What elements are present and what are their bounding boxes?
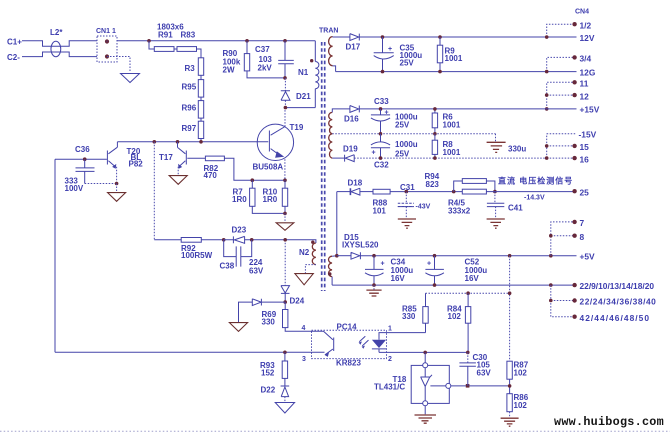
svg-text:4: 4 [302, 325, 306, 332]
terminal 22/9/10/13/14/18/20 [572, 283, 576, 287]
node junction +15V stub [545, 107, 549, 111]
diode D21 [281, 91, 290, 100]
node junction C36 top [83, 157, 87, 161]
svg-text:2kV: 2kV [258, 64, 273, 73]
svg-text:25V: 25V [395, 121, 410, 130]
wire W4 top tap [332, 255, 337, 258]
wire -15V line [354, 157, 547, 159]
svg-text:16: 16 [580, 155, 590, 165]
svg-text:直流 电压检测信号: 直流 电压检测信号 [498, 176, 573, 186]
wire W2 top tap [332, 109, 350, 113]
node junction C34 top [372, 254, 376, 258]
terminal 42/44/46/48/50 [572, 315, 576, 319]
resistor R94 parallel branch [454, 181, 495, 192]
wire +5V line left [337, 255, 351, 257]
diode D15 [351, 252, 360, 259]
wire W2 center tap common line [332, 133, 495, 135]
diode clamp at R69 [252, 299, 261, 306]
node junction C35 top [381, 35, 385, 39]
terminal 7 [572, 220, 576, 224]
resistor R90 [244, 54, 249, 71]
svg-text:-14.3V: -14.3V [524, 195, 545, 202]
diode D19 [345, 155, 355, 162]
svg-text:330u: 330u [508, 145, 526, 154]
node junction +5V 7/8 column [549, 254, 553, 258]
wire R10 column [284, 180, 286, 188]
transformer core [322, 42, 325, 291]
optocoupler LED [372, 333, 387, 353]
svg-text:1: 1 [388, 326, 392, 333]
wire pin1 to R85 [387, 332, 426, 334]
svg-text:102: 102 [514, 401, 528, 410]
node junction C34 bottom [372, 283, 376, 287]
transformer secondary W1 winding [329, 37, 333, 66]
wire collector node to N1 bottom [285, 107, 315, 109]
regulator TL431 anode circle [423, 401, 428, 406]
svg-text:C2-: C2- [7, 53, 20, 62]
svg-text:KR823: KR823 [336, 359, 361, 368]
svg-text:C38: C38 [220, 262, 235, 271]
svg-text:7: 7 [580, 218, 585, 228]
node junction D23 left [222, 238, 226, 242]
svg-text:1R0: 1R0 [263, 195, 278, 204]
svg-text:+: + [372, 150, 376, 157]
node junction 12G stub [545, 70, 549, 74]
resistor R86 [507, 394, 512, 412]
capacitor C30 [467, 352, 469, 362]
resistor R87 [507, 361, 512, 379]
regulator TL431 ref circle [446, 383, 451, 388]
wire T19 emitter down [284, 159, 286, 180]
node junction +5V divider tap [508, 254, 512, 258]
svg-text:63V: 63V [249, 267, 264, 276]
resistor R91 [154, 47, 174, 52]
resistor R9 [439, 37, 441, 72]
diode D16 [350, 106, 359, 113]
svg-text:16V: 16V [391, 274, 406, 283]
node junction base line T17 [176, 140, 180, 144]
svg-text:22/9/10/13/14/18/20: 22/9/10/13/14/18/20 [580, 281, 655, 291]
wire D24 to node [284, 293, 286, 302]
wire T17 collector [177, 142, 179, 148]
terminal 11 [572, 80, 576, 84]
wire R69 to pin4 [285, 328, 311, 332]
diode D18 [350, 188, 360, 195]
wire -15V dashed stub [547, 133, 576, 135]
svg-text:100V: 100V [65, 184, 84, 193]
wire R90 bottom to snubber node [247, 71, 285, 78]
wire stub terminal 16 [547, 157, 575, 159]
node junction R94 right [493, 190, 497, 194]
svg-text:152: 152 [261, 369, 275, 378]
svg-text:25: 25 [580, 188, 590, 198]
wire stub terminals 11 12 [547, 82, 575, 109]
svg-text:8: 8 [580, 232, 585, 242]
wire T17 emitter to ground [177, 167, 179, 176]
wire R92 line left [154, 239, 181, 241]
svg-text:25V: 25V [400, 59, 415, 68]
wire N1 bottom riser [314, 89, 316, 108]
terminal 16 [572, 156, 576, 160]
svg-text:L2*: L2* [50, 28, 63, 37]
svg-text:C1+: C1+ [7, 38, 22, 47]
svg-text:12V: 12V [580, 33, 595, 43]
wire 12V line [359, 36, 576, 38]
ground earth common [487, 142, 506, 152]
resistor R96 [198, 101, 203, 119]
wire R97 to base line [200, 139, 202, 142]
wire TL431 cathode [424, 352, 426, 362]
svg-text:T19: T19 [290, 123, 304, 132]
wire R92 column [153, 142, 155, 240]
wire C1+ to CN1 [22, 41, 97, 47]
svg-text:+: + [381, 261, 385, 268]
wire R7 R10 bottoms tie [252, 206, 285, 213]
node junction 22/24 stub [549, 299, 553, 303]
svg-text:+: + [388, 46, 392, 53]
svg-text:100R5W: 100R5W [181, 251, 213, 260]
wire W2 bottom tap [332, 157, 344, 159]
node junction R94 left [452, 190, 456, 194]
svg-text:22/24/34/36/38/40: 22/24/34/36/38/40 [580, 297, 657, 307]
ground earth TL431 [415, 415, 437, 423]
svg-text:IXYSL520: IXYSL520 [342, 241, 379, 250]
node junction T20 emitter [115, 182, 119, 186]
capacitor C36 [76, 159, 95, 183]
resistor R7 [250, 188, 255, 206]
svg-text:D22: D22 [261, 386, 276, 395]
inductor L2 common mode choke [51, 46, 60, 52]
svg-text:63V: 63V [477, 369, 492, 378]
connector CN1 box [97, 36, 117, 62]
node junction base line R97 [199, 140, 203, 144]
wire C2- to CN1 [22, 52, 97, 57]
resistor R8 [434, 134, 436, 158]
node junction snubber [283, 76, 287, 80]
svg-text:D19: D19 [343, 145, 358, 154]
terminal 15 [572, 144, 576, 148]
node junction N2 line [283, 238, 287, 242]
capacitor C37 [278, 41, 294, 78]
resistor R88 [373, 189, 390, 194]
transistor T19 BU508A [257, 124, 293, 160]
wire stub terminal 3/4 [547, 57, 575, 71]
transformer secondary W4 winding [329, 256, 333, 276]
wire CN1 to ground [107, 57, 130, 73]
transformer primary N1 phase dot [310, 59, 313, 62]
svg-text:1R0: 1R0 [232, 195, 247, 204]
transformer primary N1 winding [315, 41, 319, 89]
node junction rail R90 [245, 39, 249, 43]
regulator TL431 internal zener [420, 368, 445, 401]
node junction R84 top [466, 291, 470, 295]
wire D22 to ground [284, 397, 286, 403]
node junction R9 top [438, 35, 442, 39]
wire R93 to D22 [284, 378, 286, 386]
svg-text:333x2: 333x2 [448, 207, 471, 216]
resistor R97 [198, 121, 203, 138]
svg-text:D16: D16 [344, 115, 359, 124]
transistor T17 [185, 151, 187, 165]
optocoupler light arrows [359, 336, 368, 346]
svg-text:C36: C36 [75, 145, 90, 154]
ground at T17 [169, 176, 187, 185]
ground earth C41 [487, 219, 505, 228]
node junction C33 top [379, 107, 383, 111]
transformer N2 winding [312, 243, 316, 265]
svg-text:12: 12 [580, 92, 590, 102]
svg-text:1001: 1001 [443, 121, 461, 130]
wire clamp diode line [262, 301, 285, 303]
wire T20 collector [116, 142, 118, 147]
wire R82 to emitter resistors [224, 158, 285, 180]
node junction collector line [284, 106, 288, 110]
wire return rail [332, 284, 574, 286]
node junction C31 [405, 190, 409, 194]
diode D17 [350, 34, 359, 41]
node junction rail-R91 [147, 39, 151, 43]
wire R86 to ground [509, 412, 511, 418]
resistor R3 [198, 58, 203, 76]
wire output stubs column [551, 285, 574, 317]
wire R91 to R83 [174, 48, 177, 50]
diode D23 [224, 236, 245, 243]
connector CN1 pin dot bottom [105, 54, 109, 58]
node junction return rail output column [549, 283, 553, 287]
wire R7 column [251, 180, 253, 188]
node junction C52 bottom [433, 283, 437, 287]
wire +15V line [359, 108, 576, 110]
node junction R93 pin3 [283, 351, 287, 355]
optocoupler phototransistor [312, 331, 334, 355]
svg-text:+: + [427, 261, 431, 268]
resistor R4/5 [462, 189, 486, 194]
node junction C52 top [433, 254, 437, 258]
svg-text:102: 102 [448, 312, 462, 321]
svg-text:T17: T17 [159, 153, 173, 162]
svg-text:15: 15 [580, 142, 590, 152]
node junction base line x154 [153, 140, 157, 144]
resistor R10 [282, 188, 287, 206]
diode D24 [281, 286, 290, 294]
wire main AC rail [107, 40, 315, 43]
terminal 12 [572, 93, 576, 97]
resistor R69 [284, 302, 286, 309]
wire stub terminal 15 [547, 145, 575, 147]
optocoupler PC14 box [312, 330, 387, 358]
svg-text:1000u: 1000u [395, 140, 418, 149]
svg-text:P82: P82 [129, 160, 144, 169]
node junction D24 R69 [283, 300, 287, 304]
svg-text:+15V: +15V [580, 105, 600, 115]
svg-text:CN4: CN4 [575, 9, 589, 16]
wire W1 bottom to 12G line [333, 66, 336, 72]
svg-text:42/44/46/48/50: 42/44/46/48/50 [580, 313, 651, 323]
resistor R6 [434, 109, 436, 134]
wire emitter node to ground [116, 184, 118, 193]
wire T19 base line [117, 141, 268, 143]
node junction D23 right [250, 238, 254, 242]
wire to primary ground [284, 213, 286, 222]
wire R3 to R95 [200, 75, 202, 79]
node junction C30 R84 [466, 351, 470, 355]
wire N2 top [313, 240, 316, 243]
diode D24 column [284, 240, 286, 286]
wire C36 bottom to emitter node [85, 183, 117, 185]
wire R92 to D23 [201, 239, 223, 241]
terminal 8 [572, 234, 576, 238]
svg-text:C37: C37 [255, 45, 270, 54]
svg-text:N2: N2 [299, 248, 310, 257]
wire TL431 anode to ground [424, 406, 426, 415]
wire T19 collector up [284, 108, 286, 127]
svg-text:CN1 1: CN1 1 [96, 28, 116, 35]
wire T20 base from feedback node [55, 158, 107, 160]
wire -15V branch column [546, 134, 548, 158]
svg-text:D17: D17 [346, 43, 361, 52]
svg-text:330: 330 [262, 318, 276, 327]
wire clamp to ground [239, 302, 253, 322]
wire R95 to R96 [200, 97, 202, 101]
wire pin3 line [285, 351, 325, 353]
svg-text:R95: R95 [182, 83, 197, 92]
node junction W4 D18 [335, 254, 339, 258]
svg-text:-15V: -15V [579, 130, 597, 140]
wire D21 to collector node [284, 100, 286, 107]
node junction R9 bottom [438, 70, 442, 74]
diode D22 zener [281, 386, 290, 397]
transformer W4 phase dot [328, 272, 331, 275]
svg-text:R96: R96 [182, 104, 197, 113]
wire R96 to R97 [200, 118, 202, 121]
ground at T20 emitter [108, 193, 126, 202]
ground earth C34 [373, 285, 375, 289]
ground earth R86 [501, 418, 519, 426]
node junction 12V stub [545, 35, 549, 39]
resistor R95 [198, 80, 203, 98]
wire R84 bottom to ref line [467, 323, 469, 352]
wire stub terminal 1/2 [547, 24, 575, 37]
node junction ref C30 [466, 384, 470, 388]
wire R83 to R3 [197, 49, 202, 58]
wire +5V line [360, 255, 576, 257]
wire detection line left [337, 191, 350, 193]
svg-text:D23: D23 [232, 226, 247, 235]
svg-text:www.huibogs.com: www.huibogs.com [554, 415, 664, 429]
wire R87 to R86 [509, 379, 511, 394]
svg-text:TL431/C: TL431/C [374, 383, 405, 392]
ground at D22 [275, 403, 294, 414]
wire feedback bottom horizontal [55, 351, 285, 353]
node junction R7 top [251, 178, 255, 182]
svg-text:TRAN: TRAN [319, 28, 338, 35]
svg-text:R91: R91 [158, 31, 173, 40]
capacitor C32 polarized [371, 134, 390, 158]
svg-text:2W: 2W [223, 66, 235, 75]
svg-text:D18: D18 [348, 179, 363, 188]
wire feedback vertical left [54, 159, 56, 352]
ground at N2 [295, 274, 313, 285]
svg-text:12G: 12G [580, 68, 596, 78]
wire feedback divider column [509, 256, 511, 362]
svg-text:BU508A: BU508A [253, 163, 284, 172]
node junction TL431 cathode [423, 351, 427, 355]
wire rail to R90 [246, 41, 248, 54]
svg-text:330: 330 [402, 312, 416, 321]
svg-text:470: 470 [204, 171, 218, 180]
node junction C35 bottom [381, 70, 385, 74]
svg-text:1001: 1001 [445, 54, 463, 63]
svg-text:N1: N1 [298, 68, 309, 77]
svg-text:D21: D21 [296, 92, 311, 101]
wire W1 top to D17 [333, 36, 350, 38]
wire 7 8 column [551, 222, 574, 256]
node junction 15 [545, 144, 549, 148]
wire pin2 ref line [379, 351, 468, 353]
resistor R83 [177, 47, 197, 52]
svg-text:11: 11 [580, 79, 589, 89]
node junction emitter ground [283, 212, 287, 216]
node junction R10 top [283, 178, 287, 182]
page border dotted bottom [0, 430, 670, 432]
resistor R85 [425, 293, 427, 332]
node junction rail C37 [283, 39, 287, 43]
ground earth C31 [398, 219, 416, 228]
transistor T20 [106, 151, 108, 165]
terminal 1/2 [572, 22, 576, 26]
node junction common C33 C32 [379, 132, 383, 136]
terminal 22/24/34/36/38/40 [572, 298, 576, 302]
node junction C32 bottom [379, 156, 383, 160]
svg-text:102: 102 [514, 369, 528, 378]
transformer secondary W2 winding upper [329, 112, 333, 158]
svg-text:C32: C32 [374, 161, 389, 170]
svg-text:R97: R97 [182, 124, 197, 133]
wire D18 feed column [336, 192, 338, 256]
wire T20 emitter down [116, 167, 118, 184]
node junction 12 stub [545, 93, 549, 97]
resistor R93 [284, 352, 286, 361]
svg-text:-43V: -43V [416, 204, 431, 211]
wire 12G line [336, 71, 577, 73]
svg-text:1/2: 1/2 [580, 21, 592, 31]
svg-text:R83: R83 [181, 31, 196, 40]
svg-text:25V: 25V [395, 150, 410, 159]
svg-text:16V: 16V [465, 274, 480, 283]
wire W4 bottom to return rail [331, 277, 333, 286]
terminal 3/4 [572, 55, 576, 59]
wire T17 base to R82 [187, 157, 205, 159]
svg-text:R3: R3 [185, 64, 196, 73]
wire D18 to R88 [360, 191, 373, 193]
wire detection line right [486, 191, 574, 193]
node junction divider mid [508, 384, 512, 388]
ground at clamp diode [229, 323, 247, 332]
ground at CN1 [121, 74, 140, 83]
svg-text:823: 823 [426, 180, 440, 189]
node junction 8 stub [549, 234, 553, 238]
wire D23 to N2 [245, 239, 313, 241]
svg-text:3: 3 [302, 356, 306, 363]
svg-text:+5V: +5V [580, 252, 596, 262]
svg-text:+: + [385, 110, 389, 117]
svg-text:1001: 1001 [443, 148, 461, 157]
svg-text:C41: C41 [508, 204, 523, 213]
wire R85 R84 top line [426, 292, 510, 294]
wire snubber to D21 [284, 78, 286, 91]
wire rail to R91 [149, 41, 154, 49]
wire TL431 ref to divider [451, 385, 510, 387]
